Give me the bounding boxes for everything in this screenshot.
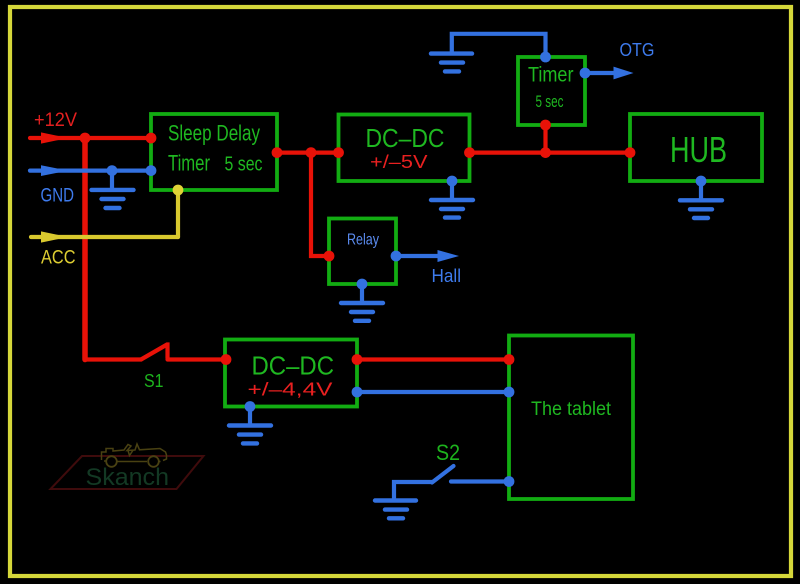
svg-text:ACC: ACC: [41, 248, 76, 269]
box U1 Sleep Delay Timer: [151, 114, 277, 190]
node +12V junction: [80, 133, 91, 144]
svg-text:Relay: Relay: [347, 232, 379, 249]
node GND at Sleep Delay: [146, 165, 157, 176]
switch S2 blade: [432, 466, 454, 483]
ground symbol GND input: [92, 190, 134, 208]
svg-text:5 sec: 5 sec: [225, 154, 263, 176]
wire Hall output: [396, 254, 440, 258]
node S1 to DC-DC2: [221, 354, 232, 365]
ground symbol timer top: [431, 54, 472, 72]
wire S1 to DC-DC2: [168, 357, 227, 361]
box K1 Relay: [329, 219, 396, 285]
ground symbol S2: [375, 501, 416, 519]
logo car body: [102, 444, 167, 462]
box The tablet: [509, 336, 633, 500]
node timer branch: [540, 147, 551, 158]
wire Sleep Delay to DC-DC1: [277, 151, 339, 155]
wire tablet bottom to S2: [451, 479, 509, 483]
logo car wheel left: [106, 456, 117, 467]
wire GND input: [30, 169, 151, 173]
svg-text:+/–4,4V: +/–4,4V: [248, 380, 333, 400]
wire timer top to ground: [452, 34, 546, 57]
svg-text:5 sec: 5 sec: [536, 93, 564, 111]
svg-text:Timer: Timer: [168, 151, 210, 176]
node DC-DC2 out minus: [352, 387, 363, 398]
switch S1 blade: [141, 345, 168, 360]
arrow ACC head: [41, 231, 68, 242]
box HUB: [630, 114, 762, 181]
node relay gnd: [357, 279, 368, 290]
wire ACC vertical to Sleep Delay: [176, 190, 180, 237]
box U2 DC-DC +/-5V: [339, 115, 470, 182]
node DC-DC1 gnd: [447, 176, 458, 187]
node +12V at Sleep Delay: [146, 133, 157, 144]
ground stem DC-DC2: [248, 407, 252, 426]
arrow GND input head: [41, 165, 68, 176]
node relay out: [391, 251, 402, 262]
svg-text:GND: GND: [41, 186, 75, 207]
node tablet bottom: [504, 476, 515, 487]
arrow Hall head: [438, 250, 460, 262]
svg-text:Sleep Delay: Sleep Delay: [168, 121, 260, 146]
box U3 Timer 5 sec (OTG timer): [518, 57, 585, 125]
node timer top: [540, 52, 551, 63]
svg-text:OTG: OTG: [620, 39, 655, 60]
ground symbol relay: [341, 303, 383, 321]
wire +12V input: [30, 136, 151, 140]
ground stem DC-DC1: [450, 181, 454, 200]
wire +12V vertical drop to S1: [82, 138, 88, 360]
wire drop to relay: [311, 153, 329, 256]
ground stem at GND input: [110, 171, 114, 190]
node Sleep Delay out: [272, 147, 283, 158]
svg-text:S1: S1: [144, 370, 164, 391]
svg-text:Timer: Timer: [528, 64, 574, 87]
wire ACC input: [31, 235, 178, 239]
wire DC-DC2 to tablet (minus): [357, 390, 509, 394]
svg-text:The tablet: The tablet: [531, 399, 612, 420]
node HUB gnd: [696, 176, 707, 187]
logo car wheel right: [148, 456, 159, 467]
node DC-DC1 out: [464, 147, 475, 158]
svg-text:DC–DC: DC–DC: [252, 351, 335, 381]
svg-text:Skanch: Skanch: [86, 464, 170, 491]
ground stem relay: [360, 284, 364, 303]
ground stem HUB: [699, 181, 703, 200]
wire S1 left lead: [85, 357, 141, 361]
node DC-DC2 gnd: [245, 401, 256, 412]
node timer bottom: [540, 120, 551, 131]
wire DC-DC1 to HUB: [470, 151, 631, 155]
node ACC at Sleep Delay: [173, 185, 184, 196]
wire OTG output: [585, 71, 615, 75]
box U4 DC-DC +/-4,4V: [225, 340, 357, 407]
svg-text:S2: S2: [436, 440, 460, 465]
node GND junction: [107, 165, 118, 176]
arrow OTG head: [614, 67, 634, 80]
svg-text:Hall: Hall: [432, 265, 462, 286]
node tablet in minus: [504, 387, 515, 398]
svg-text:+/–5V: +/–5V: [370, 152, 428, 172]
ground symbol DC-DC2: [229, 426, 271, 444]
node DC-DC1 in: [333, 147, 344, 158]
wire timer bottom stem: [543, 125, 547, 153]
wire S2 to ground: [394, 482, 432, 500]
node relay coil in: [324, 251, 335, 262]
svg-text:HUB: HUB: [670, 129, 727, 170]
node HUB in: [625, 147, 636, 158]
node DC-DC2 out plus: [352, 354, 363, 365]
node relay branch: [306, 147, 317, 158]
ground symbol DC-DC1: [431, 200, 473, 218]
wire DC-DC2 to tablet (plus): [357, 357, 509, 361]
arrow +12V head: [41, 132, 68, 143]
svg-text:+12V: +12V: [34, 110, 77, 131]
node timer OTG out: [580, 68, 591, 79]
node tablet in plus: [504, 354, 515, 365]
logo parallelogram: [51, 456, 204, 489]
svg-text:DC–DC: DC–DC: [366, 123, 445, 153]
ground symbol HUB: [680, 200, 722, 218]
